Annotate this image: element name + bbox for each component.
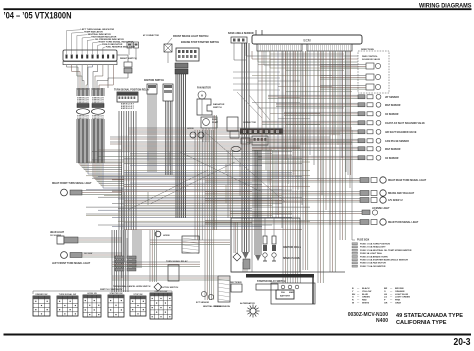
svg-text:DIRECTIONS: DIRECTIONS <box>361 49 374 51</box>
svg-text:TURN SIGNAL RELAY: TURN SIGNAL RELAY <box>166 260 188 263</box>
svg-text:FRONT BRAKE LIGHT SWITCH: FRONT BRAKE LIGHT SWITCH <box>173 35 209 38</box>
svg-text:SPARK PLUGS: SPARK PLUGS <box>283 257 300 260</box>
svg-text:GR: GR <box>384 303 388 305</box>
svg-text:BATTERY: BATTERY <box>280 295 291 298</box>
svg-text:12V 32/3W ×2: 12V 32/3W ×2 <box>388 199 403 202</box>
svg-text:CALIFORNIA TYPE: CALIFORNIA TYPE <box>396 320 447 326</box>
svg-text:SOLENOID VALVE: SOLENOID VALVE <box>362 58 381 61</box>
svg-text:STARTER RELAY SWITCH: STARTER RELAY SWITCH <box>257 280 286 283</box>
svg-text:FUSE 3 10A NEUTRAL OIL TEMP: FUSE 3 10A NEUTRAL OIL TEMP SPEEDOMETER <box>360 249 412 252</box>
svg-text:TURN SIGNAL POSITION RELAY: TURN SIGNAL POSITION RELAY <box>114 89 150 92</box>
svg-text:HORN: HORN <box>187 128 194 130</box>
svg-text:ORANGE: ORANGE <box>395 290 405 293</box>
svg-text:BANK ANGLE SENSOR: BANK ANGLE SENSOR <box>228 32 254 35</box>
svg-text:FUSE 5 10A STARTER BANK ANGL: FUSE 5 10A STARTER BANK ANGLE SENSOR <box>360 259 408 262</box>
svg-text:RIGHT REAR TURN SIGNAL LIGHT: RIGHT REAR TURN SIGNAL LIGHT <box>388 179 427 182</box>
svg-text:HEAD LIGHT: HEAD LIGHT <box>50 231 65 234</box>
svg-text:G: G <box>352 297 354 299</box>
svg-text:ECM: ECM <box>303 39 310 43</box>
svg-text:CONNECTOR: CONNECTOR <box>243 122 256 124</box>
svg-text:30A: 30A <box>281 291 285 294</box>
svg-text:LG: LG <box>384 297 387 299</box>
svg-text:NEUTRAL SWITCH: NEUTRAL SWITCH <box>203 305 222 308</box>
svg-text:LEFT FRONT TURN SIGNAL LIGHT: LEFT FRONT TURN SIGNAL LIGHT <box>52 262 91 265</box>
svg-text:PINK: PINK <box>395 300 401 302</box>
svg-text:RESET SWITCH: RESET SWITCH <box>120 58 137 60</box>
svg-text:HORN SW: HORN SW <box>87 293 97 295</box>
svg-text:AIR SHUT SOLENOID VALVE: AIR SHUT SOLENOID VALVE <box>385 131 417 134</box>
svg-text:HORN: HORN <box>163 235 170 237</box>
svg-text:RIGHT FRONT TURN SIGNAL LIGHT: RIGHT FRONT TURN SIGNAL LIGHT <box>52 182 92 185</box>
svg-text:IAT SENSOR: IAT SENSOR <box>385 96 399 99</box>
svg-text:FUSE 1 10A TURN POSITION: FUSE 1 10A TURN POSITION <box>360 243 390 246</box>
svg-text:BLUE: BLUE <box>362 294 368 296</box>
svg-text:DIMMER SW: DIMMER SW <box>36 294 48 296</box>
svg-text:WHITE: WHITE <box>362 303 370 305</box>
svg-text:COAST A/F SHUT SOLENOID VALVE: COAST A/F SHUT SOLENOID VALVE <box>385 122 425 125</box>
svg-text:SWITCH CONTINUITY: SWITCH CONTINUITY <box>100 289 123 291</box>
svg-text:20-3: 20-3 <box>454 337 471 346</box>
svg-text:RADIATOR: RADIATOR <box>213 103 225 106</box>
svg-text:LB: LB <box>384 294 387 296</box>
svg-text:IGNITION SW: IGNITION SW <box>155 291 168 293</box>
svg-text:BU: BU <box>352 294 356 296</box>
svg-text:ENGINE STOP STARTER SWITCH: ENGINE STOP STARTER SWITCH <box>181 41 219 44</box>
svg-text:’04 – ’05 VTX1800N: ’04 – ’05 VTX1800N <box>4 11 72 21</box>
svg-text:ECT SENSOR: ECT SENSOR <box>196 302 210 304</box>
svg-text:WIRING DIAGRAMS: WIRING DIAGRAMS <box>419 2 472 9</box>
svg-text:GRAY: GRAY <box>395 302 402 305</box>
svg-text:O2 SENSOR: O2 SENSOR <box>385 158 399 160</box>
svg-text:YELLOW: YELLOW <box>362 291 372 293</box>
svg-text:MAP SENSOR: MAP SENSOR <box>385 148 401 151</box>
svg-text:REAR TURN SIGNAL LIGHT: REAR TURN SIGNAL LIGHT <box>388 221 419 224</box>
svg-text:CAM PULSE SENSOR: CAM PULSE SENSOR <box>385 140 409 143</box>
svg-text:LIGHT GREEN: LIGHT GREEN <box>395 297 410 299</box>
svg-text:MAP SENSOR: MAP SENSOR <box>385 104 401 107</box>
svg-text:SWITCH: SWITCH <box>213 107 222 109</box>
svg-text:BLACK: BLACK <box>362 287 370 290</box>
svg-text:FUSE 2 10A HEADLIGHT: FUSE 2 10A HEADLIGHT <box>360 246 386 249</box>
svg-text:GREEN: GREEN <box>362 297 370 299</box>
svg-text:LIGHT BLUE: LIGHT BLUE <box>395 294 409 296</box>
svg-text:FUSE 4 10A BRAKE HORN: FUSE 4 10A BRAKE HORN <box>360 255 388 258</box>
svg-text:TURN SIGNAL CANCEL HORN SWITCH: TURN SIGNAL CANCEL HORN SWITCH <box>113 285 151 288</box>
svg-text:O2 SENSOR: O2 SENSOR <box>385 114 399 116</box>
svg-text:ALTERNATOR: ALTERNATOR <box>240 302 255 305</box>
svg-text:FAN MOTOR: FAN MOTOR <box>197 87 211 90</box>
svg-text:FUSE 7 10A ODOMETER: FUSE 7 10A ODOMETER <box>360 265 386 268</box>
svg-text:FUSE 3A LIGHT DIAL: FUSE 3A LIGHT DIAL <box>360 252 383 255</box>
svg-text:STOP SW: STOP SW <box>133 294 142 296</box>
svg-text:12V 32W: 12V 32W <box>84 253 92 255</box>
svg-text:BR: BR <box>384 288 388 290</box>
svg-text:B BR W LG R Y: B BR W LG R Y <box>121 108 135 110</box>
svg-text:4P CONNECTOR: 4P CONNECTOR <box>143 34 159 37</box>
svg-text:FUSE 6 10A FAN MOTOR: FUSE 6 10A FAN MOTOR <box>360 262 386 265</box>
svg-text:IGNITION SWITCH: IGNITION SWITCH <box>144 80 164 82</box>
svg-text:49 STATE/CANADA TYPE: 49 STATE/CANADA TYPE <box>396 313 463 319</box>
svg-text:BRAKE AND TAILLIGHT: BRAKE AND TAILLIGHT <box>388 192 415 195</box>
svg-text:STARTER SW: STARTER SW <box>109 292 122 295</box>
svg-text:CLUTCH SWITCH: CLUTCH SWITCH <box>160 287 179 289</box>
svg-text:RED: RED <box>362 300 367 302</box>
svg-text:TURN SIGNAL SW: TURN SIGNAL SW <box>59 293 77 296</box>
svg-text:BROWN: BROWN <box>395 288 404 290</box>
svg-text:FUSE BOX: FUSE BOX <box>357 239 370 242</box>
svg-text:O: O <box>384 291 386 293</box>
svg-text:IGNITION COILS: IGNITION COILS <box>283 247 301 249</box>
svg-text:PAIR CONTROL: PAIR CONTROL <box>362 55 378 58</box>
svg-text:N400: N400 <box>376 318 388 324</box>
